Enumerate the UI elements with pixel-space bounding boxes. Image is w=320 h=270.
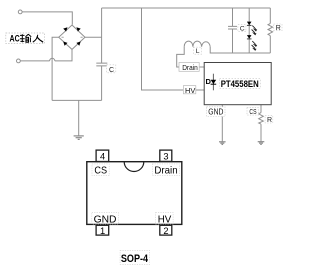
svg-text:PT4558EN: PT4558EN [221,79,259,89]
glyph shu (input char 1) [20,34,31,42]
ground symbol CS pin [258,142,265,145]
pin label Drain dotted box [152,164,179,176]
svg-text:GND: GND [94,215,117,226]
bridge diode arrow bottom-left [63,42,67,46]
svg-text:CS: CS [249,107,256,116]
wire HV drop [142,8,205,90]
svg-text:C: C [109,67,114,74]
wire hop over vertical [50,58,55,61]
bridge rectifier diamond [59,25,85,49]
IC internal diode D triangle [211,80,217,84]
svg-text:CS: CS [94,166,107,177]
svg-text:SOP-4: SOP-4 [121,253,148,265]
inductor L coil [184,41,210,47]
pin label GND dotted box [92,212,119,224]
capacitor C2 branch lower [232,29,234,53]
svg-text:Drain: Drain [154,166,177,177]
LED D2 triangle [247,35,252,39]
label box GND [207,107,226,117]
label box HV [183,86,195,94]
LED branch wire [248,8,250,53]
SOP-4 package body [87,162,182,225]
label box L [193,47,201,54]
wire bottom terminal to hop [20,60,49,62]
CS pin wire lower [260,124,262,141]
resistor R output branch [269,8,271,23]
capacitor C1 plates [96,63,107,66]
GND pin wire [221,105,223,141]
pin label CS dotted box [92,164,109,176]
pin label HV dotted box [156,212,174,224]
wire drain route [177,47,205,67]
svg-text:HV: HV [158,215,172,226]
AC input terminal top [18,10,22,14]
label box C2 [238,25,246,32]
op IC U1 PT4558EN box [204,63,271,105]
svg-text:HV: HV [185,86,195,95]
IC internal diode D cathode bar [211,83,217,85]
label box R cs [265,115,273,123]
wire inductor right to bottom rail [210,47,270,53]
label box PT4558EN [220,79,261,89]
AC input terminal bottom [17,59,21,63]
bridge polarity dash right [81,36,83,38]
LED D2 emission arrows [252,41,257,50]
wire bridge right vertex to cap [85,36,102,38]
wire bottom rail left section [52,99,102,101]
pin 1 box [96,225,109,235]
wire ground tap [78,100,80,135]
bridge diode arrow top-right [76,27,80,31]
bridge diode arrow top-left [63,27,67,31]
IC internal diode D line [212,74,214,91]
svg-text:4: 4 [100,152,105,162]
svg-text:L: L [196,48,200,55]
capacitor C2 plates [228,26,237,29]
LED D2 cathode bar [247,38,252,40]
label box AC input [6,33,45,44]
LED D1 cathode bar [247,24,252,26]
CS pin wire upper [260,105,262,113]
svg-text:R: R [267,117,272,124]
wire bridge left vertex down [52,37,59,100]
svg-text:AC: AC [10,33,21,43]
wire hop to bridge bottom [55,49,72,61]
bridge diode arrow bottom-right [76,42,80,46]
capacitor C2 branch upper [232,8,234,26]
wire top rail [102,7,271,9]
svg-text:2: 2 [163,226,168,236]
bridge polarity dash left [62,36,64,38]
svg-text:R: R [276,25,281,32]
resistor R cs zigzag [259,113,264,125]
label box CS [247,108,258,115]
resistor R output lower [269,36,271,53]
capacitor C1 branch lower [101,66,103,100]
label box R output [274,24,282,31]
svg-text:3: 3 [163,152,168,162]
label box Drain [179,63,199,72]
glyph ru (input char 2) [33,35,43,43]
pin 2 box [160,225,172,235]
pin 3 box [160,150,172,161]
ground symbol GND pin [219,142,226,145]
wire top terminal to bridge top [22,12,72,25]
resistor R output zigzag [268,23,273,35]
svg-text:Drain: Drain [182,63,198,72]
svg-text:C: C [240,26,245,33]
capacitor C1 branch upper [101,8,103,63]
caption SOP-4 dotted box [120,250,150,264]
pin 4 box [96,150,109,161]
LED D1 triangle [247,22,252,26]
svg-text:GND: GND [208,108,223,117]
ground symbol main (3 bars) [74,136,84,140]
SOP-4 notch [124,162,144,172]
svg-text:D: D [206,77,212,86]
LED D1 emission arrows [252,26,257,35]
svg-text:1: 1 [100,226,105,236]
label box C1 [107,65,116,73]
